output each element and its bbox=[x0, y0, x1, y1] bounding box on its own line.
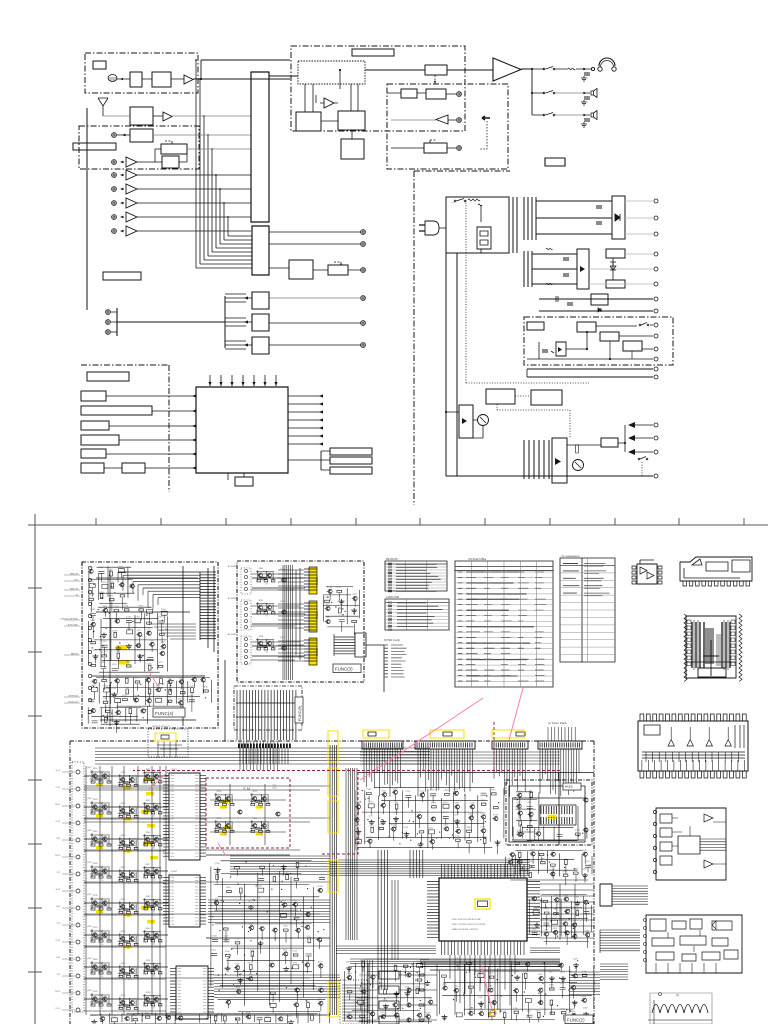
svg-text:IC261: IC261 bbox=[126, 616, 131, 618]
svg-text:C14: C14 bbox=[152, 847, 155, 849]
svg-text:IC598: IC598 bbox=[317, 886, 322, 888]
svg-text:R224: R224 bbox=[146, 960, 151, 962]
svg-text:C202: C202 bbox=[235, 963, 240, 965]
svg-text:Q319: Q319 bbox=[549, 985, 554, 987]
svg-text:R401: R401 bbox=[561, 1008, 566, 1010]
svg-text:IC690: IC690 bbox=[114, 606, 119, 608]
svg-text:IC345: IC345 bbox=[470, 802, 475, 804]
svg-text:IC397: IC397 bbox=[517, 830, 522, 832]
svg-text:R981: R981 bbox=[109, 595, 114, 597]
svg-text:C752: C752 bbox=[146, 629, 151, 631]
svg-text:D954: D954 bbox=[178, 698, 183, 700]
svg-text:R730: R730 bbox=[93, 895, 98, 897]
svg-text:R354: R354 bbox=[138, 606, 143, 608]
svg-text:Q691: Q691 bbox=[355, 837, 360, 839]
svg-text:Q965: Q965 bbox=[404, 987, 409, 989]
svg-text:R844: R844 bbox=[121, 931, 126, 933]
svg-text:D392: D392 bbox=[90, 620, 95, 622]
svg-text:R923: R923 bbox=[248, 963, 253, 965]
svg-text:R838: R838 bbox=[179, 677, 184, 679]
svg-text:IC807: IC807 bbox=[573, 869, 578, 871]
svg-text:IC229: IC229 bbox=[200, 676, 205, 678]
svg-text:Q480: Q480 bbox=[517, 809, 522, 811]
svg-text:D404: D404 bbox=[124, 687, 129, 689]
svg-text:D850: D850 bbox=[536, 1011, 541, 1013]
svg-text:R346: R346 bbox=[466, 827, 471, 829]
svg-text:D269: D269 bbox=[533, 908, 538, 910]
svg-text:C199: C199 bbox=[405, 791, 410, 793]
svg-text:(2): (2) bbox=[676, 993, 679, 997]
svg-text:SL IN: SL IN bbox=[56, 889, 61, 891]
svg-text:C13: C13 bbox=[128, 819, 131, 821]
svg-text:R439: R439 bbox=[582, 996, 587, 998]
svg-text:Q891: Q891 bbox=[443, 802, 448, 804]
svg-text:D249: D249 bbox=[582, 850, 587, 852]
svg-text:D990: D990 bbox=[133, 1015, 138, 1017]
svg-text:MAIN IN: MAIN IN bbox=[71, 653, 79, 656]
svg-text:C581: C581 bbox=[103, 698, 108, 700]
svg-text:RR IN: RR IN bbox=[55, 804, 61, 806]
svg-text:R505: R505 bbox=[121, 772, 126, 774]
svg-text:Q950: Q950 bbox=[114, 715, 119, 717]
svg-text:C320: C320 bbox=[108, 569, 113, 571]
svg-text:AUX OUT: AUX OUT bbox=[368, 1019, 378, 1022]
svg-text:R877: R877 bbox=[146, 864, 151, 866]
svg-text:R510: R510 bbox=[104, 686, 109, 688]
svg-text:Q556: Q556 bbox=[215, 863, 220, 865]
svg-text:IC233: IC233 bbox=[552, 918, 557, 920]
svg-text:Q915: Q915 bbox=[453, 789, 458, 791]
svg-text:D767: D767 bbox=[293, 951, 298, 953]
svg-text:R912: R912 bbox=[121, 995, 126, 997]
svg-text:D805: D805 bbox=[156, 685, 161, 687]
svg-text:Q971: Q971 bbox=[560, 972, 565, 974]
svg-text:R949: R949 bbox=[93, 863, 98, 865]
svg-text:C90: C90 bbox=[224, 834, 227, 836]
svg-text:D260: D260 bbox=[583, 1008, 588, 1010]
svg-text:C372: C372 bbox=[180, 688, 185, 690]
svg-text:R640: R640 bbox=[146, 928, 151, 930]
svg-text:C292: C292 bbox=[235, 1015, 240, 1017]
svg-text:D193: D193 bbox=[369, 825, 374, 827]
svg-text:IC995: IC995 bbox=[102, 641, 107, 643]
svg-text:D116: D116 bbox=[563, 920, 567, 922]
svg-text:C328: C328 bbox=[149, 640, 154, 642]
svg-text:MAIN SYS MODE CONTROL: MAIN SYS MODE CONTROL bbox=[452, 928, 479, 931]
svg-text:D933: D933 bbox=[122, 695, 127, 697]
svg-text:IC200: IC200 bbox=[249, 949, 254, 951]
svg-text:R724: R724 bbox=[572, 932, 577, 934]
svg-text:Q927: Q927 bbox=[87, 894, 92, 896]
svg-text:C628: C628 bbox=[283, 926, 288, 928]
svg-text:C168: C168 bbox=[527, 802, 532, 804]
svg-text:Q352: Q352 bbox=[248, 901, 253, 903]
svg-text:D329: D329 bbox=[573, 959, 578, 961]
svg-text:FUNC ICM IC501 MICROCOMP: FUNC ICM IC501 MICROCOMP bbox=[452, 919, 482, 921]
svg-text:REMOTE: REMOTE bbox=[70, 589, 79, 591]
svg-text:C78: C78 bbox=[260, 807, 263, 809]
svg-text:R498: R498 bbox=[258, 874, 263, 876]
svg-text:CAPACITOR: CAPACITOR bbox=[386, 596, 400, 599]
svg-text:Q963: Q963 bbox=[309, 1013, 314, 1015]
svg-text:Q327: Q327 bbox=[563, 871, 568, 873]
svg-text:IC994: IC994 bbox=[493, 814, 498, 816]
svg-text:45RMB: 45RMB bbox=[315, 577, 318, 585]
svg-text:C27: C27 bbox=[128, 883, 131, 885]
svg-text:C70: C70 bbox=[152, 879, 155, 881]
svg-text:IC356: IC356 bbox=[140, 707, 145, 709]
svg-text:AL SURR: AL SURR bbox=[228, 565, 237, 568]
svg-text:D689: D689 bbox=[540, 858, 545, 860]
svg-text:C10: C10 bbox=[100, 912, 103, 914]
svg-text:C821: C821 bbox=[89, 581, 94, 583]
svg-text:R337: R337 bbox=[538, 974, 543, 976]
svg-text:R253: R253 bbox=[93, 927, 98, 929]
svg-text:R505: R505 bbox=[532, 928, 537, 930]
svg-text:R524: R524 bbox=[93, 768, 98, 770]
svg-text:C588: C588 bbox=[443, 812, 448, 814]
svg-text:D710: D710 bbox=[306, 936, 311, 938]
svg-text:Q865: Q865 bbox=[454, 803, 459, 805]
svg-text:R687: R687 bbox=[91, 685, 96, 687]
svg-text:Q625: Q625 bbox=[325, 604, 330, 606]
svg-text:IC899: IC899 bbox=[265, 1015, 270, 1017]
svg-text:IC461: IC461 bbox=[366, 789, 371, 791]
svg-text:R686: R686 bbox=[226, 887, 231, 889]
svg-text:R847: R847 bbox=[118, 566, 123, 568]
svg-text:C16: C16 bbox=[152, 975, 155, 977]
svg-text:C787: C787 bbox=[258, 886, 263, 888]
svg-text:D251: D251 bbox=[491, 790, 496, 792]
svg-text:IC760: IC760 bbox=[550, 870, 555, 872]
svg-text:Q929: Q929 bbox=[87, 798, 92, 800]
svg-text:R116: R116 bbox=[217, 818, 221, 820]
svg-text:R831: R831 bbox=[93, 831, 98, 833]
svg-text:Q835: Q835 bbox=[417, 812, 422, 814]
svg-text:IC526: IC526 bbox=[575, 830, 580, 832]
svg-text:Q556: Q556 bbox=[87, 990, 92, 992]
svg-text:IC752: IC752 bbox=[235, 939, 240, 941]
svg-text:D904: D904 bbox=[347, 1012, 352, 1014]
svg-text:IC944: IC944 bbox=[133, 696, 138, 698]
svg-text:R748: R748 bbox=[246, 1012, 251, 1014]
svg-text:IC617: IC617 bbox=[355, 825, 360, 827]
svg-text:C93: C93 bbox=[100, 848, 103, 850]
svg-text:Q549: Q549 bbox=[189, 686, 194, 688]
svg-text:Q617: Q617 bbox=[137, 630, 142, 632]
svg-text:IC878: IC878 bbox=[191, 675, 196, 677]
svg-text:C222: C222 bbox=[455, 958, 460, 960]
svg-text:R711: R711 bbox=[253, 791, 257, 793]
svg-text:Q293: Q293 bbox=[455, 827, 460, 829]
svg-text:FUNC(4): FUNC(4) bbox=[155, 711, 174, 716]
svg-text:C80: C80 bbox=[100, 944, 103, 946]
svg-text:C28: C28 bbox=[128, 851, 131, 853]
svg-text:R343: R343 bbox=[121, 963, 126, 965]
svg-text:AL SURR: AL SURR bbox=[228, 633, 237, 636]
svg-text:C307: C307 bbox=[318, 986, 323, 988]
svg-text:C765: C765 bbox=[572, 921, 577, 923]
svg-text:IC682: IC682 bbox=[360, 960, 365, 962]
svg-text:SP FRONT: SP FRONT bbox=[68, 696, 78, 698]
svg-text:R617: R617 bbox=[549, 972, 554, 974]
svg-text:D740: D740 bbox=[146, 696, 151, 698]
svg-text:FUNC CONTROLLER CPU SYSTEM: FUNC CONTROLLER CPU SYSTEM bbox=[452, 924, 486, 926]
svg-text:CONTROL S/P FLER: CONTROL S/P FLER bbox=[60, 619, 79, 621]
svg-text:C425: C425 bbox=[214, 898, 219, 900]
svg-text:R767: R767 bbox=[354, 816, 359, 818]
svg-text:Q138: Q138 bbox=[214, 873, 219, 875]
svg-text:C87: C87 bbox=[128, 947, 131, 949]
svg-text:C651: C651 bbox=[292, 900, 297, 902]
svg-text:Q806: Q806 bbox=[468, 814, 473, 816]
svg-text:D770: D770 bbox=[280, 569, 285, 571]
svg-text:FL IN: FL IN bbox=[56, 821, 61, 823]
svg-text:IC363: IC363 bbox=[248, 974, 253, 976]
svg-text:D973: D973 bbox=[105, 707, 110, 709]
svg-text:D617: D617 bbox=[393, 964, 398, 966]
svg-text:C523: C523 bbox=[367, 837, 372, 839]
svg-text:R109: R109 bbox=[158, 617, 163, 619]
svg-text:FL IN: FL IN bbox=[56, 787, 61, 789]
svg-text:C984: C984 bbox=[189, 695, 194, 697]
svg-text:FL IN: FL IN bbox=[56, 1008, 61, 1010]
svg-text:Q755: Q755 bbox=[347, 987, 352, 989]
svg-text:C89: C89 bbox=[128, 1011, 131, 1013]
svg-text:D980: D980 bbox=[585, 931, 590, 933]
svg-text:C398: C398 bbox=[272, 788, 277, 790]
svg-text:D216: D216 bbox=[213, 1014, 218, 1016]
svg-text:Q434: Q434 bbox=[103, 715, 108, 717]
svg-text:D434: D434 bbox=[137, 650, 142, 652]
svg-text:Q480: Q480 bbox=[358, 998, 363, 1000]
svg-text:FUNC(9): FUNC(9) bbox=[298, 705, 302, 721]
svg-text:Q946: Q946 bbox=[442, 984, 447, 986]
svg-text:RR IN: RR IN bbox=[55, 855, 61, 857]
svg-text:C818: C818 bbox=[564, 907, 569, 909]
svg-text:R797: R797 bbox=[481, 800, 486, 802]
svg-text:D795: D795 bbox=[161, 642, 166, 644]
svg-text:R541: R541 bbox=[382, 790, 387, 792]
svg-text:C73: C73 bbox=[224, 807, 227, 809]
svg-text:AUX OUT: AUX OUT bbox=[368, 974, 378, 977]
svg-text:D467: D467 bbox=[282, 900, 287, 902]
svg-text:IC863: IC863 bbox=[127, 707, 132, 709]
svg-text:C472: C472 bbox=[115, 651, 120, 653]
svg-text:Q230: Q230 bbox=[489, 1010, 494, 1012]
svg-text:IC567: IC567 bbox=[478, 971, 483, 973]
svg-text:Q610: Q610 bbox=[560, 983, 565, 985]
svg-text:IC108: IC108 bbox=[112, 630, 117, 632]
svg-text:C631: C631 bbox=[368, 802, 373, 804]
svg-text:C404: C404 bbox=[574, 896, 579, 898]
svg-text:Q472: Q472 bbox=[178, 1014, 183, 1016]
svg-text:Q413: Q413 bbox=[517, 791, 522, 793]
svg-text:IC431: IC431 bbox=[352, 594, 357, 596]
svg-text:C16: C16 bbox=[100, 785, 103, 787]
svg-text:D592: D592 bbox=[161, 609, 166, 611]
svg-text:AUX OUT: AUX OUT bbox=[368, 989, 378, 992]
svg-text:AUX OUT: AUX OUT bbox=[368, 1004, 378, 1007]
svg-text:IC141: IC141 bbox=[420, 791, 425, 793]
svg-text:IC189: IC189 bbox=[88, 567, 93, 569]
svg-text:D810: D810 bbox=[553, 928, 558, 930]
svg-text:SL IN: SL IN bbox=[56, 770, 61, 772]
svg-text:R529: R529 bbox=[93, 991, 98, 993]
svg-text:C83: C83 bbox=[260, 834, 263, 836]
svg-text:REMOTE: REMOTE bbox=[70, 574, 79, 576]
svg-text:C716: C716 bbox=[502, 1011, 507, 1013]
svg-text:D481: D481 bbox=[488, 986, 493, 988]
svg-text:Q354: Q354 bbox=[270, 989, 275, 991]
svg-text:R261: R261 bbox=[305, 961, 310, 963]
svg-text:Q622: Q622 bbox=[87, 958, 92, 960]
svg-text:Q646: Q646 bbox=[87, 830, 92, 832]
svg-text:C22: C22 bbox=[152, 815, 155, 817]
svg-text:S M: S M bbox=[243, 786, 250, 791]
svg-text:Q221: Q221 bbox=[429, 828, 434, 830]
svg-text:Q727: Q727 bbox=[430, 789, 435, 791]
svg-text:R691: R691 bbox=[283, 950, 288, 952]
svg-text:R183: R183 bbox=[93, 799, 98, 801]
svg-text:REMOTE SENSOR: REMOTE SENSOR bbox=[152, 726, 170, 728]
svg-text:C370: C370 bbox=[167, 687, 172, 689]
svg-text:C48: C48 bbox=[128, 979, 131, 981]
svg-text:R914: R914 bbox=[543, 919, 548, 921]
svg-text:C12: C12 bbox=[128, 915, 131, 917]
svg-text:Q555: Q555 bbox=[530, 850, 535, 852]
svg-text:C899: C899 bbox=[554, 895, 559, 897]
svg-text:Q793: Q793 bbox=[417, 976, 422, 978]
svg-text:D750: D750 bbox=[102, 582, 107, 584]
svg-text:IC573: IC573 bbox=[379, 824, 384, 826]
svg-text:IC355: IC355 bbox=[468, 983, 473, 985]
svg-text:D825: D825 bbox=[444, 790, 449, 792]
svg-text:D376: D376 bbox=[478, 997, 483, 999]
svg-text:Q291: Q291 bbox=[318, 999, 323, 1001]
svg-text:R240: R240 bbox=[146, 832, 151, 834]
svg-text:R329: R329 bbox=[121, 803, 126, 805]
svg-text:IC618: IC618 bbox=[507, 869, 512, 871]
svg-text:IC810: IC810 bbox=[479, 1009, 484, 1011]
svg-text:to Tuner Pack: to Tuner Pack bbox=[548, 721, 567, 725]
svg-text:Q557: Q557 bbox=[527, 1011, 532, 1013]
svg-text:Q873: Q873 bbox=[158, 662, 163, 664]
svg-text:C137: C137 bbox=[369, 815, 374, 817]
svg-text:C14: C14 bbox=[265, 651, 268, 653]
svg-text:R815: R815 bbox=[305, 1001, 310, 1003]
svg-text:R542: R542 bbox=[203, 687, 208, 689]
svg-text:R989: R989 bbox=[534, 918, 539, 920]
svg-text:Q669: Q669 bbox=[145, 676, 150, 678]
svg-text:D558: D558 bbox=[158, 677, 163, 679]
svg-text:R491: R491 bbox=[236, 987, 241, 989]
svg-text:Q309: Q309 bbox=[146, 619, 151, 621]
svg-text:IC140: IC140 bbox=[223, 935, 228, 937]
svg-text:C950: C950 bbox=[124, 676, 129, 678]
svg-text:IC914: IC914 bbox=[431, 802, 436, 804]
svg-text:C40: C40 bbox=[152, 784, 155, 786]
svg-text:R495: R495 bbox=[417, 961, 422, 963]
svg-text:Q829: Q829 bbox=[515, 959, 520, 961]
svg-text:IC120: IC120 bbox=[347, 973, 352, 975]
svg-text:D891: D891 bbox=[489, 973, 494, 975]
svg-text:D666: D666 bbox=[167, 677, 172, 679]
svg-text:POS: POS bbox=[565, 785, 573, 789]
svg-text:IC197: IC197 bbox=[111, 1015, 116, 1017]
svg-text:R812: R812 bbox=[121, 867, 126, 869]
svg-text:R446: R446 bbox=[571, 1011, 576, 1013]
svg-text:C630: C630 bbox=[249, 923, 254, 925]
svg-text:IC352: IC352 bbox=[135, 616, 140, 618]
svg-text:C588: C588 bbox=[544, 930, 549, 932]
svg-text:C381: C381 bbox=[325, 617, 330, 619]
svg-text:C29: C29 bbox=[265, 583, 268, 585]
svg-text:IC195: IC195 bbox=[536, 829, 541, 831]
svg-text:R842: R842 bbox=[550, 850, 555, 852]
svg-text:Q139: Q139 bbox=[93, 650, 98, 652]
svg-text:D708: D708 bbox=[507, 858, 512, 860]
svg-text:D215: D215 bbox=[91, 1015, 96, 1017]
svg-text:D877: D877 bbox=[346, 962, 351, 964]
svg-text:IC322: IC322 bbox=[482, 836, 487, 838]
svg-text:C158: C158 bbox=[361, 987, 366, 989]
svg-text:C221: C221 bbox=[111, 688, 116, 690]
svg-text:Q655: Q655 bbox=[563, 895, 568, 897]
svg-text:IC760: IC760 bbox=[327, 587, 332, 589]
svg-text:RESISTOR: RESISTOR bbox=[386, 559, 398, 561]
svg-text:C64: C64 bbox=[152, 943, 155, 945]
svg-text:D615: D615 bbox=[380, 1012, 385, 1014]
svg-text:C788: C788 bbox=[101, 662, 106, 664]
svg-text:45RMB: 45RMB bbox=[315, 648, 318, 656]
svg-text:VOLTAGE TABLE: VOLTAGE TABLE bbox=[468, 558, 487, 561]
svg-text:IC482: IC482 bbox=[481, 813, 486, 815]
svg-text:D255: D255 bbox=[356, 802, 361, 804]
svg-text:C352: C352 bbox=[394, 802, 399, 804]
svg-text:C152: C152 bbox=[466, 837, 471, 839]
svg-text:R745: R745 bbox=[156, 696, 161, 698]
svg-text:Q697: Q697 bbox=[87, 767, 92, 769]
svg-text:FL IN: FL IN bbox=[56, 940, 61, 942]
svg-text:IC601: IC601 bbox=[171, 769, 178, 771]
svg-text:IC265: IC265 bbox=[212, 935, 217, 937]
svg-text:R191: R191 bbox=[539, 850, 544, 852]
svg-text:R482: R482 bbox=[146, 769, 151, 771]
svg-text:C239: C239 bbox=[572, 972, 577, 974]
svg-text:R334: R334 bbox=[103, 606, 108, 608]
svg-text:Q129: Q129 bbox=[135, 678, 140, 680]
svg-text:C436: C436 bbox=[324, 597, 329, 599]
svg-text:Q518: Q518 bbox=[404, 827, 409, 829]
svg-text:R894: R894 bbox=[93, 959, 98, 961]
svg-text:C771: C771 bbox=[88, 595, 93, 597]
svg-text:C57: C57 bbox=[100, 816, 103, 818]
svg-text:C18: C18 bbox=[152, 1007, 155, 1009]
svg-text:Q666: Q666 bbox=[392, 788, 397, 790]
svg-text:Q818: Q818 bbox=[222, 1014, 227, 1016]
svg-text:R/CH,L/CH: R/CH,L/CH bbox=[69, 702, 79, 704]
svg-text:IC111: IC111 bbox=[454, 815, 459, 817]
svg-text:45RMB: 45RMB bbox=[315, 611, 318, 619]
svg-text:C74: C74 bbox=[128, 788, 131, 790]
svg-text:IC375: IC375 bbox=[294, 986, 299, 988]
svg-text:D549: D549 bbox=[481, 826, 486, 828]
svg-text:IC121: IC121 bbox=[337, 587, 342, 589]
svg-text:D984: D984 bbox=[124, 606, 129, 608]
svg-text:Q322: Q322 bbox=[280, 637, 285, 639]
svg-text:Q206: Q206 bbox=[523, 972, 528, 974]
